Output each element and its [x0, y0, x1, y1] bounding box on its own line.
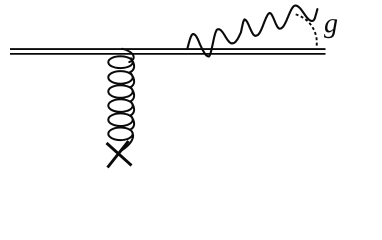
wavy gluon line	[188, 6, 318, 57]
eikonal double line (bottom)	[10, 53, 326, 55]
eikonal double line (top)	[10, 48, 326, 50]
cross X (gluon attaches to crossed vertex)	[107, 141, 132, 168]
svg-text:g: g	[324, 8, 338, 39]
dotted arc toward label	[296, 14, 317, 48]
gluon coil (down to crossed end)	[108, 49, 134, 153]
